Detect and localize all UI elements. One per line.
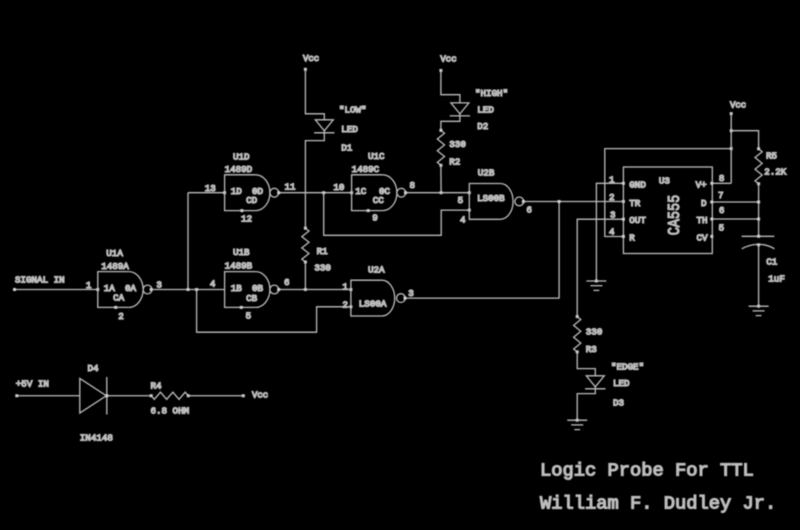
svg-text:CC: CC <box>373 195 385 206</box>
svg-text:0A: 0A <box>125 283 137 294</box>
U1A pin 2 stub <box>114 306 117 309</box>
capacitor C1 <box>742 235 775 237</box>
svg-text:1D: 1D <box>231 186 243 197</box>
gate U1B (1489 receiver) <box>225 272 256 308</box>
svg-text:William F. Dudley Jr.: William F. Dudley Jr. <box>540 493 776 515</box>
svg-text:"HIGH": "HIGH" <box>475 88 508 99</box>
svg-text:12: 12 <box>241 213 252 224</box>
svg-text:D: D <box>701 198 707 209</box>
svg-text:R: R <box>629 233 635 244</box>
svg-text:330: 330 <box>449 139 466 150</box>
wire 555 pin4 to Vcc rail <box>605 149 731 237</box>
wire D2 to R2 <box>441 114 460 130</box>
svg-text:8: 8 <box>719 173 725 184</box>
wire R2 to node E <box>440 165 442 192</box>
junction node C <box>322 191 325 194</box>
junction node B <box>195 288 198 291</box>
ic U3 CA555 body <box>623 167 712 254</box>
svg-text:CD: CD <box>246 195 258 206</box>
svg-text:GND: GND <box>629 179 646 190</box>
svg-text:11: 11 <box>285 182 297 193</box>
junction node E (R2 bottom) <box>440 191 443 194</box>
svg-text:5: 5 <box>719 222 725 233</box>
svg-text:LS00B: LS00B <box>477 193 505 204</box>
gate U2A (LS00 NAND) <box>351 280 382 316</box>
svg-text:C1: C1 <box>766 257 778 268</box>
junction node D (R1 bottom) <box>304 288 307 291</box>
svg-text:5: 5 <box>458 195 464 206</box>
svg-text:4: 4 <box>609 226 615 237</box>
U1C pin 9 stub <box>367 209 370 212</box>
wire C1 to ground <box>758 246 760 307</box>
wire 555 pin1 to ground <box>596 183 623 281</box>
svg-text:330: 330 <box>586 327 603 338</box>
svg-text:LED: LED <box>613 378 630 389</box>
junction node A <box>187 288 190 291</box>
wire U1C output row <box>406 192 469 194</box>
wire U1B output row <box>279 289 351 291</box>
svg-text:U1C: U1C <box>368 151 385 162</box>
svg-text:R3: R3 <box>586 344 597 355</box>
resistor R3 <box>574 317 581 352</box>
svg-text:CV: CV <box>697 233 709 244</box>
svg-text:2: 2 <box>118 311 124 322</box>
wire D4 to R4 <box>107 395 151 397</box>
svg-text:R1: R1 <box>317 246 329 257</box>
wire R4 to Vcc <box>188 395 243 397</box>
gate U1A (1489 receiver) <box>98 272 129 308</box>
svg-text:330: 330 <box>314 263 331 274</box>
junction node F <box>558 200 561 203</box>
svg-text:R4: R4 <box>151 380 163 391</box>
wire U2B output to 555 TR <box>524 201 624 203</box>
svg-text:Vcc: Vcc <box>303 54 319 64</box>
resistor R4 <box>151 392 188 399</box>
U1D pin 12 stub <box>240 209 243 212</box>
resistor R1 <box>302 228 309 262</box>
svg-text:2: 2 <box>342 299 348 310</box>
resistor R2 <box>437 130 444 165</box>
svg-text:3: 3 <box>408 288 414 299</box>
svg-text:Vcc: Vcc <box>440 55 456 65</box>
svg-text:U1D: U1D <box>233 151 250 162</box>
svg-text:D2: D2 <box>477 121 488 132</box>
wire 555 pin7 D <box>712 201 759 203</box>
ground (D3) <box>567 419 587 421</box>
svg-text:1uF: 1uF <box>768 273 785 284</box>
svg-text:"LOW": "LOW" <box>339 105 367 116</box>
svg-text:CA: CA <box>113 292 125 303</box>
svg-text:Vcc: Vcc <box>252 391 268 401</box>
wire Vcc to D2 <box>441 71 460 103</box>
wire R5 to C1 <box>758 184 760 237</box>
svg-text:2: 2 <box>609 192 615 203</box>
diode D4 <box>80 378 107 413</box>
svg-text:13: 13 <box>205 183 216 194</box>
svg-text:5: 5 <box>246 310 252 321</box>
wire 555 pin3 OUT down <box>577 219 623 316</box>
wire R1 to node D <box>304 262 306 290</box>
wire route to U2B pin 4 <box>324 193 470 236</box>
wire 555 pin5 stub <box>710 235 713 238</box>
svg-text:U2B: U2B <box>478 168 495 179</box>
svg-text:V+: V+ <box>696 179 707 190</box>
wire D1 to R1 <box>305 131 324 228</box>
svg-text:Vcc: Vcc <box>730 101 746 111</box>
svg-text:CB: CB <box>246 293 258 304</box>
gate U2B (LS00 NAND) <box>469 184 500 220</box>
led D1 <box>315 120 333 131</box>
svg-text:1: 1 <box>342 281 348 292</box>
wire SIGNAL IN input <box>15 289 98 291</box>
svg-text:"EDGE": "EDGE" <box>611 361 644 372</box>
wire D3 to ground <box>577 387 595 420</box>
wire +5V input <box>17 395 80 397</box>
wire R3 to D3 <box>577 352 595 376</box>
svg-text:9: 9 <box>372 213 378 224</box>
wire U1D output row <box>279 192 351 194</box>
svg-text:1489B: 1489B <box>225 261 253 272</box>
svg-text:U3: U3 <box>659 176 670 187</box>
svg-text:U2A: U2A <box>368 264 385 275</box>
svg-text:SIGNAL IN: SIGNAL IN <box>15 275 65 286</box>
svg-text:U1A: U1A <box>106 248 123 259</box>
wire Vcc down to pin8 <box>730 114 732 184</box>
wire branch to R5 <box>731 131 758 149</box>
svg-text:D3: D3 <box>613 398 624 409</box>
gate U1D (1489 receiver) <box>225 175 256 211</box>
resistor R5 <box>755 149 762 184</box>
svg-text:1489C: 1489C <box>352 164 380 175</box>
svg-text:1489A: 1489A <box>101 261 129 272</box>
wire Vcc to D1 <box>305 69 324 120</box>
svg-text:LS00A: LS00A <box>359 298 387 309</box>
svg-text:D4: D4 <box>88 363 100 374</box>
svg-text:6: 6 <box>719 205 725 216</box>
svg-text:+5V IN: +5V IN <box>16 379 49 390</box>
svg-text:1489D: 1489D <box>225 164 253 175</box>
svg-text:R5: R5 <box>766 150 777 161</box>
led D2 <box>451 103 469 114</box>
svg-text:1: 1 <box>86 280 92 291</box>
junction node H <box>730 129 733 132</box>
svg-text:U1B: U1B <box>233 247 250 258</box>
wire U2A output to 555 TR <box>405 202 559 299</box>
ground (C1) <box>749 305 769 307</box>
svg-text:TR: TR <box>629 198 641 209</box>
svg-text:6: 6 <box>284 277 290 288</box>
svg-text:IN4148: IN4148 <box>80 433 113 444</box>
wire U1A output <box>152 289 224 291</box>
junction node G <box>730 147 733 150</box>
svg-text:LED: LED <box>341 124 358 135</box>
svg-text:8: 8 <box>410 180 416 191</box>
svg-text:6: 6 <box>526 205 532 216</box>
led D3 <box>586 376 604 387</box>
svg-text:4: 4 <box>210 279 216 290</box>
svg-text:6.8 OHM: 6.8 OHM <box>151 405 190 416</box>
svg-text:D1: D1 <box>341 142 353 153</box>
svg-text:LED: LED <box>477 105 494 116</box>
svg-text:7: 7 <box>718 190 724 201</box>
svg-text:R2: R2 <box>449 157 460 168</box>
svg-text:4: 4 <box>460 214 466 225</box>
svg-text:1B: 1B <box>231 283 243 294</box>
svg-text:TH: TH <box>697 215 708 226</box>
svg-text:10: 10 <box>333 182 344 193</box>
wire 555 pin6 TH <box>712 218 759 220</box>
svg-text:OUT: OUT <box>629 215 646 226</box>
svg-text:2.2K: 2.2K <box>764 166 787 177</box>
svg-text:Logic Probe For TTL: Logic Probe For TTL <box>540 459 754 481</box>
wire bottom route to U2A pin 2 <box>197 290 351 333</box>
svg-text:1C: 1C <box>355 186 367 197</box>
ground (555 pin1) <box>586 280 606 282</box>
gate U1C (1489 receiver) <box>352 175 383 211</box>
svg-text:CA555: CA555 <box>666 195 685 236</box>
wire branch up to U1D pin 13 <box>187 193 189 290</box>
U1B pin 5 stub <box>240 306 243 309</box>
